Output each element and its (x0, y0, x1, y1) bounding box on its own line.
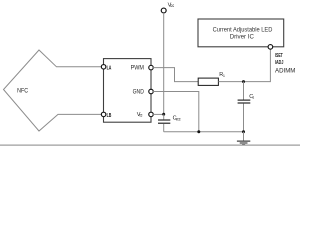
junction R1-C1 node (242, 80, 245, 83)
svg-text:CC: CC (170, 4, 174, 8)
svg-text:1: 1 (223, 74, 225, 78)
pin PWM (149, 65, 154, 70)
junction C1-rail (242, 130, 245, 133)
bottom separator rule (0, 144, 300, 146)
power terminal VCC (161, 8, 166, 13)
NFC tag IC U1 (box) (104, 59, 152, 123)
wire U1 VCC pin to rail (153, 113, 164, 115)
pin LA (101, 65, 106, 70)
junction GND-rail (197, 130, 200, 133)
svg-text:Current Adjustable LED: Current Adjustable LED (213, 26, 273, 33)
pin GND (149, 89, 154, 94)
LED driver IC U2 (box) (198, 19, 284, 47)
svg-text:ADIMM: ADIMM (275, 69, 295, 75)
svg-text:VCC: VCC (176, 117, 181, 121)
wire GND pin to rail (153, 92, 199, 132)
capacitor C1 (238, 82, 251, 132)
svg-text:CC: CC (139, 114, 142, 118)
pin LB (101, 112, 106, 117)
wire VCC rail vertical (163, 13, 165, 114)
wire PWM to R1 (153, 68, 198, 82)
svg-text:LA: LA (107, 65, 112, 71)
resistor R1 (198, 78, 218, 85)
svg-text:NFC: NFC (17, 88, 29, 94)
junction VCC node (162, 113, 165, 116)
antenna NFC (coil symbol polyline with leads to LA/LB) (4, 50, 104, 131)
svg-text:IADJ: IADJ (275, 60, 283, 66)
svg-text:1: 1 (252, 96, 254, 100)
svg-text:ISET: ISET (275, 53, 283, 59)
ground (237, 132, 250, 145)
pin ISET/IADJ/ADIMM of U2 (268, 45, 273, 50)
svg-text:GND: GND (133, 89, 145, 95)
pin VCC of U1 (149, 112, 154, 117)
wire bottom ground rail (164, 131, 244, 133)
svg-text:Driver IC: Driver IC (230, 33, 255, 40)
capacitor CVCC (158, 114, 170, 131)
svg-text:PWM: PWM (131, 66, 144, 72)
wire R1 to driver pin (218, 49, 270, 82)
svg-text:LB: LB (107, 113, 112, 119)
